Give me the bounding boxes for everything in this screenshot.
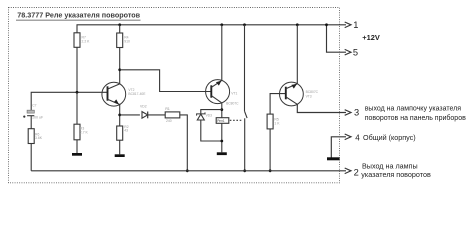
value label R3 2.7K	[80, 127, 89, 135]
node: terminal 3 label	[354, 108, 359, 118]
wire: C7 to R6	[30, 116, 32, 129]
svg-text:+12V: +12V	[362, 33, 380, 42]
mechanical link dashed line from coil to contact	[230, 119, 243, 121]
svg-text:VD2: VD2	[140, 105, 147, 109]
value label R6 3.6K	[35, 132, 43, 140]
svg-text:2.7 K: 2.7 K	[80, 131, 89, 135]
value label R5 1K	[274, 118, 280, 126]
wire: coil bottom to ground	[221, 123, 223, 152]
ground under R3	[72, 153, 82, 156]
svg-text:VT1: VT1	[231, 92, 237, 96]
svg-text:BC807C: BC807C	[306, 90, 319, 94]
svg-text:78.3777 Реле указателя поворот: 78.3777 Реле указателя поворотов	[17, 11, 140, 20]
relay coil Рел1	[216, 118, 229, 124]
node: terminal 3 description	[365, 105, 466, 121]
wire: VT3 collector to terminal 3	[297, 104, 346, 112]
resistor R4	[117, 33, 123, 48]
svg-text:240: 240	[166, 119, 172, 123]
wire: diode row from emitter junction	[120, 114, 140, 116]
junction node above relay coil	[220, 108, 223, 111]
resistor R7	[74, 33, 80, 48]
junction at coil/diode bottom node	[220, 140, 223, 143]
resistor R1	[165, 112, 180, 118]
svg-text:100 uF: 100 uF	[32, 116, 44, 120]
wire: rail to VT1 emitter	[221, 25, 223, 81]
svg-text:выход на лампочку указателя: выход на лампочку указателя	[365, 105, 462, 112]
label C7	[32, 104, 36, 108]
wire: R6 to bottom rail corner	[30, 144, 32, 171]
svg-text:43: 43	[124, 129, 128, 133]
resistor R5	[267, 114, 273, 129]
wire: rail to R4 top	[119, 25, 121, 33]
relay contact blade	[245, 111, 248, 118]
transistor VT2	[102, 82, 126, 106]
label VD2	[140, 105, 147, 109]
svg-text:указателя поворотов: указателя поворотов	[361, 170, 431, 179]
wire: base row junction down to R3	[76, 92, 78, 124]
polarity dot of C7	[23, 116, 25, 118]
label Рел1 inside coil	[217, 119, 225, 123]
label VD3	[206, 113, 213, 117]
terminal 4 arrowhead	[345, 134, 351, 140]
label R1	[165, 107, 169, 111]
junction node at VT2 collector branch	[118, 68, 121, 71]
svg-text:4: 4	[355, 133, 360, 142]
svg-text:2: 2	[354, 168, 359, 178]
wire: left base row to VT2 base	[31, 92, 107, 110]
wire: VT3 base to R5	[270, 94, 286, 115]
transistor VT1	[206, 80, 230, 104]
wire: VT1 collector down to coil node	[221, 103, 223, 118]
terminal 5 arrowhead	[345, 49, 351, 55]
wire: +12V top rail	[77, 25, 346, 33]
svg-text:5: 5	[353, 47, 358, 57]
svg-text:VD3: VD3	[206, 113, 213, 117]
terminal 2 arrowhead	[345, 168, 351, 174]
svg-text:1 K: 1 K	[274, 122, 280, 126]
svg-text:1: 1	[353, 20, 358, 30]
chassis ground bar at terminal 4	[327, 157, 340, 160]
junction of R5 branch on bottom rail	[269, 169, 272, 172]
terminal 1 arrowhead	[345, 22, 351, 28]
svg-text:поворотов на панель приборов: поворотов на панель приборов	[365, 114, 466, 122]
transistor VT3	[280, 82, 304, 106]
svg-text:BC817-40E: BC817-40E	[128, 92, 146, 96]
value label 100 uF	[32, 116, 44, 120]
title 78.3777	[16, 11, 141, 20]
junction on rail above R4	[118, 23, 121, 26]
wire: rail to VT3 emitter	[296, 25, 298, 84]
diode VD2	[142, 112, 148, 119]
schematic dotted border frame	[9, 8, 340, 183]
value label BC807C VT3	[306, 90, 319, 99]
junction of contact branch on bottom rail	[243, 169, 246, 172]
svg-text:910: 910	[124, 40, 130, 44]
svg-text:VT3: VT3	[306, 95, 312, 99]
wire: VD2 to R1	[148, 114, 166, 116]
resistor R3	[74, 124, 80, 140]
wire: R3 to ground	[76, 140, 78, 153]
ground under R2	[115, 154, 125, 157]
wire: VT2 collector to VT1 base (step)	[120, 70, 211, 92]
node: terminal 2 label	[354, 168, 359, 178]
wire: branch to terminal 5	[327, 25, 347, 52]
wire: VT2 emitter down	[119, 105, 121, 127]
node: terminal 5 label	[353, 47, 358, 57]
wire: R5 to bottom rail	[269, 129, 271, 171]
node: terminal 1 label	[353, 20, 358, 30]
svg-text:Рел1: Рел1	[217, 119, 225, 123]
wire: terminal 4 to chassis ground	[331, 137, 346, 158]
resistor R2	[117, 126, 123, 140]
wire: R4 bottom to VT2 collector	[119, 48, 121, 84]
junction of R1 branch on bottom rail	[186, 169, 189, 172]
svg-text:3.6K: 3.6K	[35, 136, 43, 140]
resistor R6	[28, 129, 34, 144]
wire: R1 to bottom rail	[180, 115, 188, 171]
value label R2 43	[124, 125, 128, 133]
svg-text:R1: R1	[165, 107, 169, 111]
wire: R7 bottom to base row junction	[76, 47, 78, 92]
node: terminal 4 label and description	[355, 133, 415, 142]
svg-text:Общий (корпус): Общий (корпус)	[363, 133, 416, 142]
svg-text:C7: C7	[32, 104, 36, 108]
value label R4 910	[124, 36, 130, 44]
node: +12V label	[362, 33, 380, 42]
svg-text:3: 3	[354, 108, 359, 118]
junction on rail above VT3 emitter	[296, 23, 299, 26]
svg-text:BC807C: BC807C	[226, 101, 239, 105]
value label R7 2.2K	[82, 35, 91, 43]
junction at R7/R3 crossing on base row	[76, 91, 79, 94]
terminal 3 arrowhead	[345, 110, 351, 116]
ground under relay coil	[217, 152, 227, 155]
junction on rail at terminal-5 branch	[325, 23, 328, 26]
junction on rail above relay contact	[243, 23, 246, 26]
junction at emitter/diode row	[118, 114, 121, 117]
wire: rail down to relay contact	[244, 25, 246, 111]
wire: bottom rail to terminal 2	[31, 170, 346, 172]
svg-text:2.2 K: 2.2 K	[82, 39, 91, 43]
capacitor C7	[27, 110, 34, 116]
zener diode VD3	[197, 110, 222, 141]
junction on rail above VT1 emitter	[220, 23, 223, 26]
node: terminal 2 description	[361, 161, 431, 179]
wire: R2 to ground	[119, 140, 121, 154]
value label VT1 BC807C	[226, 92, 239, 106]
value label VT2 BC817-40E	[128, 88, 146, 96]
value label 240	[166, 119, 172, 123]
wire: contact to bottom rail	[244, 118, 246, 171]
